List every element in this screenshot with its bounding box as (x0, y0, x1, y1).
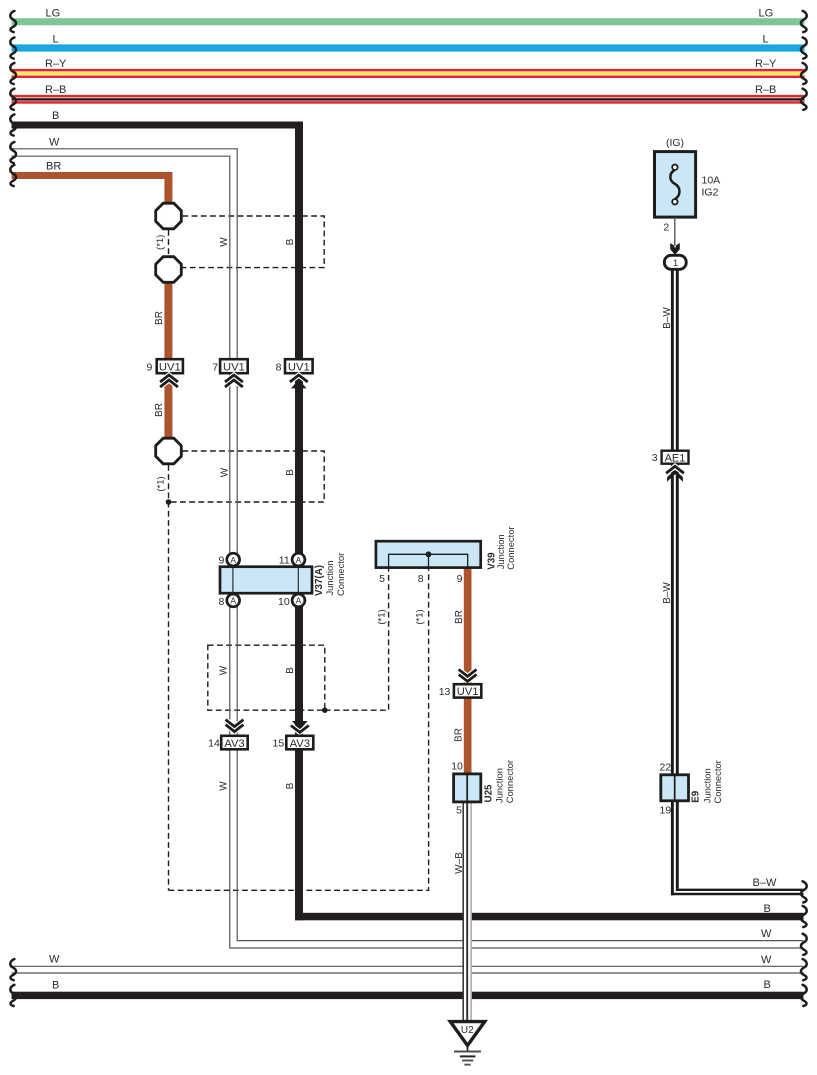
wire (*1) dashed bottom run to V39 pin 8 (169, 568, 429, 891)
svg-text:R–B: R–B (755, 84, 776, 96)
junction connector V39 (376, 526, 516, 584)
wire R-Y (red-yellow) top horizontal (12, 69, 805, 78)
arrow chevron and solid head into 15 AV3 (292, 721, 308, 732)
svg-text:5: 5 (456, 805, 462, 817)
squiggle W left (10, 142, 16, 163)
wire (*1) shield link octagon1-octagon2 (168, 230, 170, 256)
svg-text:UV1: UV1 (159, 362, 181, 374)
svg-text:W–B: W–B (454, 852, 465, 874)
svg-text:W: W (219, 237, 230, 247)
svg-text:B: B (764, 979, 771, 991)
svg-text:W: W (218, 781, 229, 791)
svg-text:LG: LG (46, 7, 61, 19)
connector 13 UV1 (pin 13) (439, 684, 482, 698)
pin A circle top-right (pin 11) (292, 553, 305, 566)
svg-text:A: A (296, 596, 302, 606)
junction connector V37(A) (219, 553, 346, 608)
wire W-B white body (463, 802, 472, 1021)
svg-text:10: 10 (278, 596, 290, 608)
ground symbol U2 (450, 1022, 484, 1065)
svg-text:10A: 10A (702, 175, 721, 187)
wire BR top horizontal segment (12, 172, 173, 179)
wire B (black) (12, 122, 804, 921)
squiggle W right bottom (801, 959, 807, 980)
svg-text:(*1): (*1) (415, 609, 426, 624)
connector 8 UV1 (pin 8) (276, 359, 313, 373)
svg-text:11: 11 (279, 555, 290, 567)
wire B-W vertical left line (671, 269, 674, 895)
connector 9 UV1 (pin 9) (146, 359, 182, 373)
pin A circle bottom-left (pin 8) (227, 594, 240, 607)
svg-text:(*1): (*1) (156, 476, 167, 491)
svg-text:9: 9 (219, 555, 225, 567)
squiggle L left (10, 37, 16, 58)
wire B-W horizontal lower line (671, 893, 804, 895)
svg-text:BR: BR (154, 311, 165, 325)
wire W bottom top outline (12, 965, 804, 967)
svg-text:B: B (285, 667, 296, 674)
svg-text:W: W (49, 137, 60, 149)
wire BR connector 9 UV1 to octagon3 (164, 372, 172, 439)
fuse 10A IG2 (IG) (655, 137, 721, 269)
svg-text:U2: U2 (461, 1025, 474, 1036)
wire fuse output lead (674, 217, 676, 246)
svg-text:B: B (52, 979, 59, 991)
svg-text:(*1): (*1) (376, 609, 387, 624)
svg-text:7: 7 (212, 361, 218, 373)
svg-text:(IG): (IG) (666, 137, 684, 149)
svg-text:B: B (764, 903, 771, 915)
svg-text:BR: BR (154, 403, 165, 417)
wire B-W vertical right line (676, 269, 679, 889)
svg-text:Junction: Junction (493, 768, 504, 803)
svg-text:3: 3 (652, 452, 658, 464)
squiggle W bottom left (10, 959, 16, 980)
svg-text:Connector: Connector (504, 760, 515, 803)
wire LG (light green) top horizontal (12, 18, 805, 25)
svg-text:B: B (52, 110, 59, 122)
svg-text:Connector: Connector (335, 553, 346, 596)
arrow chevrons into 13 UV1 (460, 670, 476, 681)
svg-text:L: L (53, 34, 59, 46)
squiggle W right mid (801, 934, 807, 955)
svg-text:AE1: AE1 (665, 452, 686, 464)
wire (*1) dashed from octagon3 down to bottom run (168, 465, 170, 890)
squiggle B right bottom (801, 985, 807, 1006)
svg-text:B–W: B–W (662, 582, 673, 604)
wire B bottom-left horizontal (12, 992, 804, 999)
squiggle R-B left (10, 89, 16, 110)
(*1) LABELS rotated (155, 235, 426, 625)
DASHED-LAYER (169, 216, 429, 890)
svg-text:R–Y: R–Y (755, 58, 777, 70)
squiggle R-Y left (10, 63, 16, 84)
wire W inner outline: top horizontal, vertical, lower horizontal (12, 156, 804, 948)
svg-text:1: 1 (673, 258, 678, 268)
svg-text:R–Y: R–Y (45, 58, 67, 70)
node dot inside V39 (426, 551, 432, 557)
svg-text:B: B (285, 238, 296, 245)
svg-text:W: W (218, 665, 229, 675)
junction connector E9 (660, 760, 723, 816)
svg-text:Junction: Junction (324, 561, 335, 596)
svg-text:IG2: IG2 (702, 186, 719, 198)
squiggle B bottom left (10, 985, 16, 1006)
wire shield box 2 around W and B (169, 451, 325, 502)
svg-text:A: A (230, 555, 236, 565)
svg-text:13: 13 (439, 686, 451, 698)
svg-text:A: A (230, 596, 236, 606)
wire W-B left outline (462, 802, 464, 1021)
wire B top horizontal segment (12, 122, 304, 129)
svg-text:UV1: UV1 (457, 686, 479, 698)
wire R-B (red-black) top horizontal (12, 95, 805, 104)
svg-text:B: B (285, 782, 296, 789)
squiggle B right mid (801, 906, 807, 927)
wire shield box 1 around W and B (182, 216, 324, 268)
pin A circle top-left (pin 9) (227, 553, 240, 566)
connector 14 AV3 (pin 14) (208, 736, 248, 750)
wire B-W horizontal upper line (676, 889, 804, 891)
connector 15 AV3 (pin 15) (273, 736, 314, 750)
svg-text:E9: E9 (690, 790, 701, 803)
svg-text:LG: LG (759, 7, 774, 19)
svg-text:19: 19 (660, 804, 672, 816)
squiggle R-Y right (801, 63, 807, 84)
svg-text:W: W (761, 928, 772, 940)
shield terminator octagon 3 (156, 438, 182, 464)
svg-text:8: 8 (276, 361, 282, 373)
svg-text:8: 8 (418, 573, 424, 585)
svg-text:BR: BR (454, 728, 465, 742)
squiggle BR left (10, 165, 16, 186)
junction connector U25 (451, 760, 515, 817)
svg-text:15: 15 (273, 738, 285, 750)
wire W-B right outline (470, 802, 472, 1021)
svg-text:B–W: B–W (753, 877, 777, 889)
svg-text:22: 22 (660, 761, 672, 773)
svg-text:B–W: B–W (662, 307, 673, 329)
arrow chevrons into 7 UV1 (226, 375, 242, 386)
svg-text:R–B: R–B (45, 84, 66, 96)
svg-text:L: L (763, 34, 769, 46)
wire L (blue) top horizontal (12, 44, 805, 51)
WIRE NAME LABELS, rotated vertical (154, 237, 673, 874)
arrow chevrons into 9 UV1 (161, 375, 177, 386)
svg-text:W: W (220, 467, 231, 477)
svg-text:8: 8 (219, 596, 225, 608)
squiggle L right (801, 37, 807, 58)
svg-text:BR: BR (46, 160, 61, 172)
wire B vertical segment (295, 122, 303, 921)
svg-text:Connector: Connector (505, 526, 516, 569)
node junction dot at shield box 3 corner (322, 707, 328, 713)
wire W (white with outline) (12, 149, 804, 948)
connector 1 ellipse (664, 255, 686, 269)
svg-text:9: 9 (457, 573, 463, 585)
wire W bottom lower outline (12, 972, 804, 974)
svg-text:A: A (296, 555, 302, 565)
svg-text:AV3: AV3 (290, 738, 310, 750)
wire W bottom horizontal (12, 966, 804, 973)
shield terminator octagon 2 (156, 257, 182, 283)
svg-text:W: W (761, 954, 772, 966)
svg-text:Junction: Junction (701, 768, 712, 803)
wire W outer outline: top horizontal, vertical, lower horizontal (12, 149, 804, 941)
svg-text:AV3: AV3 (224, 738, 244, 750)
svg-text:2: 2 (663, 221, 669, 233)
wire W-B black stripe (466, 802, 468, 1021)
squiggle R-B right (801, 89, 807, 110)
arrow chevron and solid head into 8 UV1 (291, 375, 307, 388)
wire BR from V39 pin 9 down to U25 pin 10 (464, 568, 472, 775)
squiggle LG left (10, 11, 16, 32)
wire B-W from connector 1 down through AE1 and E9 to bottom right (671, 269, 804, 895)
svg-text:BR: BR (454, 610, 465, 624)
node junction dot on dashed (*1) at left (166, 499, 172, 505)
squiggle B-W right (801, 881, 807, 902)
pin A circle bottom-right (pin 10) (292, 594, 305, 607)
svg-text:10: 10 (451, 761, 463, 773)
svg-text:14: 14 (208, 738, 220, 750)
svg-text:(*1): (*1) (155, 235, 166, 250)
wire BR drop to octagon 1 (164, 172, 172, 203)
shield terminator octagon 1 (156, 203, 182, 229)
wire W-B from U25 pin 5 down to ground U2 (463, 802, 472, 1021)
wire (*1) dashed link box3 to V39 pin 5 (325, 568, 389, 711)
svg-text:9: 9 (146, 361, 152, 373)
squiggle B left (10, 114, 16, 135)
arrow chevron and solid head into 3 AE1 (667, 466, 683, 481)
svg-text:5: 5 (379, 573, 385, 585)
wire B lower horizontal segment (295, 913, 804, 921)
wire BR (brown) (12, 172, 173, 203)
connector 7 UV1 (pin 7) (212, 359, 247, 373)
wire BR octagon2 to connector 9 UV1 (164, 282, 172, 360)
svg-text:Connector: Connector (712, 760, 723, 803)
svg-text:W: W (49, 953, 60, 965)
arrow chevrons into 14 AV3 (227, 721, 243, 732)
arrow solid head into connector 1 (670, 243, 680, 255)
wire shield box 3 around W and B (208, 645, 325, 710)
svg-text:B: B (285, 469, 296, 476)
squiggle LG right (801, 11, 807, 32)
connector 3 AE1 (pin 3) (652, 451, 689, 465)
